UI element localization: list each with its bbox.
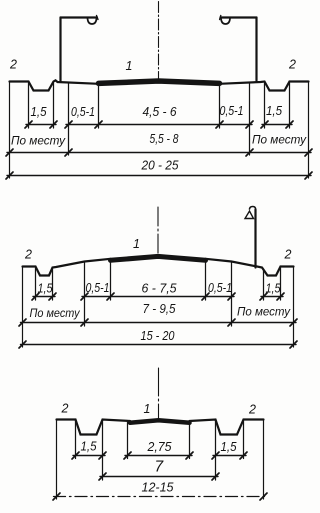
- svg-text:1: 1: [126, 59, 133, 73]
- svg-text:1,5: 1,5: [38, 281, 54, 296]
- svg-text:1,5: 1,5: [266, 281, 282, 296]
- svg-text:0,5-1: 0,5-1: [86, 280, 110, 295]
- svg-text:2: 2: [9, 58, 17, 72]
- svg-text:1,5: 1,5: [266, 103, 283, 118]
- svg-text:7 - 9,5: 7 - 9,5: [143, 301, 177, 316]
- svg-text:1,5: 1,5: [31, 104, 48, 119]
- svg-text:0,5-1: 0,5-1: [220, 103, 244, 118]
- svg-text:0,5-1: 0,5-1: [208, 280, 232, 295]
- svg-text:5,5 - 8: 5,5 - 8: [150, 131, 180, 146]
- svg-text:7: 7: [155, 459, 165, 476]
- svg-text:По месту: По месту: [30, 306, 81, 320]
- svg-text:0,5-1: 0,5-1: [71, 104, 95, 119]
- svg-text:1: 1: [144, 402, 151, 416]
- svg-text:12-15: 12-15: [142, 480, 175, 495]
- svg-text:2: 2: [288, 58, 296, 72]
- svg-text:1,5: 1,5: [81, 439, 98, 454]
- svg-text:2: 2: [24, 248, 32, 262]
- svg-text:2: 2: [61, 402, 69, 416]
- svg-text:2: 2: [284, 248, 292, 262]
- svg-text:15 - 20: 15 - 20: [141, 328, 176, 343]
- svg-text:По месту: По месту: [237, 305, 291, 319]
- svg-text:По месту: По месту: [11, 134, 66, 148]
- svg-text:2: 2: [248, 403, 256, 417]
- svg-text:1: 1: [133, 237, 140, 251]
- svg-text:1,5: 1,5: [221, 439, 238, 454]
- svg-text:4,5 - 6: 4,5 - 6: [143, 104, 178, 119]
- svg-text:20 - 25: 20 - 25: [141, 158, 180, 173]
- svg-text:По месту: По месту: [252, 133, 307, 147]
- svg-text:6 - 7,5: 6 - 7,5: [142, 281, 178, 296]
- svg-text:2,75: 2,75: [147, 439, 173, 454]
